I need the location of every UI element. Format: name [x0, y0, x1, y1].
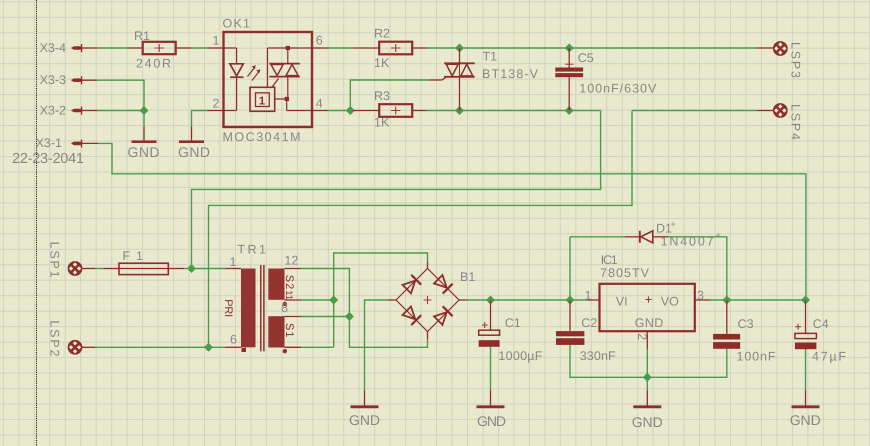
label GND (top left 1) [128, 144, 160, 160]
label C5 [578, 51, 594, 65]
label OK1 [223, 17, 251, 31]
wire net LSP2 to junction to TR1 pin 6 [95, 346, 226, 348]
junction C2 / D1 tap [566, 296, 575, 305]
label R1 value 240R [136, 57, 171, 71]
svg-text:TR1: TR1 [237, 243, 266, 257]
label C4 [813, 317, 829, 331]
wire net OK1 pin 2 to GND [192, 111, 208, 127]
wire net X3-4 to R1 [98, 47, 130, 49]
junction C5 top [565, 44, 574, 53]
label GND (C1) [477, 413, 506, 429]
svg-text:+: + [716, 230, 721, 240]
label LSP4 [789, 104, 803, 140]
solder pad LSP3 [757, 41, 788, 56]
resistor R1 [129, 42, 192, 54]
terminal X3-3 [71, 76, 97, 84]
svg-text:8: 8 [281, 301, 288, 315]
capacitor C2 [556, 300, 584, 345]
OK1 LED emission arrows [248, 65, 261, 80]
label C4 value 47uF [812, 350, 846, 364]
label D1 value 1N4007 [661, 230, 721, 249]
fuse F1 [104, 263, 185, 274]
svg-text:3: 3 [697, 289, 704, 303]
transformer TR1 primary [226, 269, 256, 353]
junction TR1 pin 8 tap [345, 312, 354, 321]
svg-text:1: 1 [585, 289, 592, 303]
wire net LSP1 to F1 [95, 268, 104, 270]
label TR1 S2 [283, 275, 295, 290]
junction C5 bottom [565, 106, 574, 115]
label F1 [123, 249, 144, 263]
svg-text:GND: GND [349, 412, 380, 428]
wire net F1 to junction to TR1 pin 1 [184, 268, 226, 270]
svg-text:330nF: 330nF [580, 349, 616, 363]
regulator IC1 7805 [588, 284, 710, 349]
label IC1 [601, 253, 618, 267]
svg-text:240R: 240R [136, 57, 171, 71]
label IC1 value 7805TV [600, 266, 650, 280]
junction C1 tap [486, 296, 495, 305]
svg-text:100nF/630V: 100nF/630V [579, 82, 657, 96]
svg-text:X3-3: X3-3 [40, 73, 66, 87]
resistor R2 [353, 42, 427, 55]
junction OK1 pin4 / R3 / T1 gate [346, 106, 355, 115]
label LSP3 [789, 42, 803, 78]
solder pad LSP1 [68, 261, 95, 276]
label C1 value 1000uF [498, 349, 542, 363]
svg-text:11: 11 [283, 290, 294, 300]
ground symbol (C4) [792, 390, 820, 407]
wire net C4 bottom to GND [805, 349, 807, 390]
svg-text:R2: R2 [374, 27, 390, 41]
OK1 internal LED [224, 48, 244, 111]
svg-text:IC1: IC1 [601, 253, 618, 267]
junction IC1 pin2 ground rail [643, 373, 652, 382]
svg-text:LSP3: LSP3 [789, 42, 803, 78]
label R3 value 1K [374, 116, 390, 130]
capacitor C1 (electrolytic) [479, 300, 500, 347]
label B1 [460, 270, 475, 284]
svg-text:GND: GND [635, 316, 664, 330]
wire net X3-1 to +5V rail (long) [98, 143, 806, 300]
svg-text:BT138-V: BT138-V [482, 67, 539, 81]
svg-text:LSP1: LSP1 [47, 242, 61, 278]
ground symbol (IC1 pin2 rail) [633, 390, 661, 407]
svg-text:B1: B1 [460, 270, 475, 284]
svg-text:C2: C2 [581, 316, 597, 330]
solder pad LSP4 [757, 103, 788, 118]
junction LSP2 / TR1 pin6 / neutral riser [204, 343, 213, 352]
label TR1 pin 1 [230, 255, 237, 269]
svg-text:1000µF: 1000µF [498, 349, 542, 363]
ground symbol (C1) [477, 390, 505, 407]
wire net OK1 pin 6 to R2 [328, 47, 353, 49]
resistor R3 [353, 104, 427, 117]
wire net D1 cathode branch [570, 237, 625, 300]
svg-text:1N4007: 1N4007 [661, 235, 714, 249]
label GND (rail) [632, 414, 663, 430]
capacitor C5 [555, 48, 583, 111]
svg-text:T1: T1 [483, 50, 498, 64]
sheet border (dotted) [36, 0, 38, 446]
svg-text:VO: VO [661, 294, 679, 308]
wire net IC1 VO to C3 C4 [710, 299, 806, 301]
label X3-2 [40, 104, 66, 118]
terminal X3-4 [71, 44, 98, 52]
label IC1 pin 3 [697, 289, 704, 303]
label C3 [738, 317, 754, 331]
svg-text:2: 2 [213, 97, 220, 111]
label T1 [483, 50, 498, 64]
wire net X3-2 to GND junction [98, 110, 145, 112]
svg-text:X3-1: X3-1 [36, 136, 62, 150]
svg-text:R3: R3 [374, 89, 390, 103]
optocoupler U/OK1 box [208, 32, 329, 127]
wire net LSP4 to LSP2 (neutral feed) [209, 111, 758, 348]
wire net R1 to OK1 pin 1 [191, 47, 207, 49]
svg-text:X3-2: X3-2 [40, 104, 66, 118]
label MOC3041M [223, 130, 301, 144]
wire net C5 bottom down to fuse junction (live feed) [192, 111, 601, 269]
svg-text:47µF: 47µF [812, 350, 846, 364]
svg-text:C3: C3 [738, 317, 754, 331]
svg-text:R1: R1 [134, 29, 150, 43]
svg-text:S1: S1 [283, 323, 295, 338]
OK1 zero-cross detector block [250, 46, 312, 111]
capacitor C4 (electrolytic) [795, 300, 817, 349]
svg-text:6: 6 [316, 34, 323, 48]
svg-text:7805TV: 7805TV [600, 266, 650, 280]
label TR1 PRI [222, 299, 234, 317]
wire net D1 anode branch to VO [668, 237, 727, 300]
label OK1 pin 4 [316, 97, 323, 111]
label IC1 pin 1 [585, 289, 592, 303]
svg-text:1K: 1K [374, 116, 390, 130]
svg-text:VI: VI [616, 294, 628, 308]
svg-text:LSP4: LSP4 [789, 104, 803, 140]
svg-text:LSP2: LSP2 [47, 320, 61, 356]
label X3-1 [36, 136, 62, 150]
label C2 value 330nF [580, 349, 616, 363]
label TR1 pin 8 [281, 301, 288, 315]
svg-text:1: 1 [230, 255, 237, 269]
label C3 value 100nF [737, 350, 776, 364]
svg-text:X3-4: X3-4 [40, 41, 66, 55]
svg-text:1K: 1K [374, 56, 390, 70]
svg-text:+: + [671, 219, 676, 229]
label TR1 pin 12 [284, 253, 298, 267]
junction C4 / +5V tap [801, 296, 810, 305]
junction T1 MT2 top [455, 44, 464, 53]
label TR1 S1 [283, 323, 295, 338]
junction TR1 pin 11 tap [329, 296, 338, 305]
label D1 [656, 219, 676, 236]
svg-text:4: 4 [316, 97, 323, 111]
wire net OK1 pin 4 to R3 junction and T1 gate [328, 80, 430, 111]
label GND (top left 2) [178, 144, 210, 160]
wire net X3-3 to GND junction [97, 80, 144, 126]
label X3-4 [40, 41, 66, 55]
svg-text:2: 2 [635, 333, 649, 340]
svg-text:GND: GND [178, 144, 210, 160]
label C5 value 100nF/630V [579, 82, 657, 96]
label TR1 [237, 243, 266, 257]
label R1 [134, 29, 150, 43]
wire net TR1 pin 11 / pin 7 to B1 AC1 [301, 253, 428, 347]
label OK1 pin 1 [213, 34, 220, 48]
OK1 internal photo-triac [269, 48, 300, 99]
wire net TR1 pin 12 / pin 8 to B1 AC2 [301, 269, 428, 348]
terminal X3-1 [71, 139, 98, 147]
wire net R2 to T1 MT2 to C5 to LSP3 [427, 47, 758, 49]
solder pad LSP2 [68, 340, 95, 355]
svg-text:22-23-2041: 22-23-2041 [12, 151, 84, 167]
label GND (C4) [790, 412, 821, 428]
label OK1 pin 6 [316, 34, 323, 48]
wire net TR1 pin 8 stub to series junction [301, 316, 349, 318]
ground symbol (B1 minus) [351, 390, 379, 407]
svg-text:S2: S2 [283, 275, 295, 290]
svg-text:C1: C1 [505, 316, 521, 330]
svg-text:1: 1 [213, 34, 220, 48]
junction T1 MT1 bottom [455, 106, 464, 115]
transformer TR1 core [261, 265, 264, 351]
label C1 [505, 316, 521, 330]
wire net B1 plus to C1 C2 D1 IC1 VI [467, 299, 589, 301]
svg-text:GND: GND [477, 413, 506, 429]
svg-text:OK1: OK1 [223, 17, 251, 31]
label LSP1 [47, 242, 61, 278]
wire net R3 to T1 MT1 to C5 bottom [427, 110, 601, 112]
wire net B1 minus to GND [365, 300, 389, 390]
label TR1 pin 6 [230, 333, 237, 347]
label LSP2 [47, 320, 61, 356]
svg-text:GND: GND [790, 412, 821, 428]
label IC1 pin 2 [635, 333, 649, 340]
label T1 value BT138-V [482, 67, 539, 81]
wire net ground rail C2 pin2 C3 [570, 345, 727, 390]
ground symbol (OK1 pin2) [179, 127, 204, 142]
label TR1 pin 11 [283, 290, 294, 300]
svg-text:GND: GND [632, 414, 663, 430]
junction C3 / D1 anode tap [722, 296, 731, 305]
bridge rectifier B1 [389, 262, 467, 339]
triac T1 [430, 48, 475, 111]
capacitor C3 [713, 300, 740, 349]
svg-text:100nF: 100nF [737, 350, 776, 364]
junction F1 / TR1 pin1 / live riser [187, 264, 196, 273]
wire net C1 bottom to GND [490, 347, 492, 390]
label R3 [374, 89, 390, 103]
diode D1 [625, 231, 668, 243]
label C2 [581, 316, 597, 330]
svg-text:PRI: PRI [222, 299, 234, 317]
svg-text:C5: C5 [578, 51, 594, 65]
svg-text:C4: C4 [813, 317, 829, 331]
svg-text:1: 1 [259, 95, 266, 107]
terminal X3-2 [71, 107, 98, 115]
label R2 value 1K [374, 56, 390, 70]
label GND (B1) [349, 412, 380, 428]
ground symbol (X3-3/X3-2) [132, 127, 157, 142]
label OK1 pin 2 [213, 97, 220, 111]
svg-text:GND: GND [128, 144, 160, 160]
transformer TR1 secondary S2 [268, 269, 301, 307]
junction X3-3/X3-2/GND [140, 106, 149, 115]
transformer TR1 secondary S1 [268, 316, 301, 353]
svg-text:12: 12 [284, 253, 298, 267]
svg-text:6: 6 [230, 333, 237, 347]
label sheet number 22-23-2041 [12, 151, 84, 167]
label X3-3 [40, 73, 66, 87]
label R2 [374, 27, 390, 41]
